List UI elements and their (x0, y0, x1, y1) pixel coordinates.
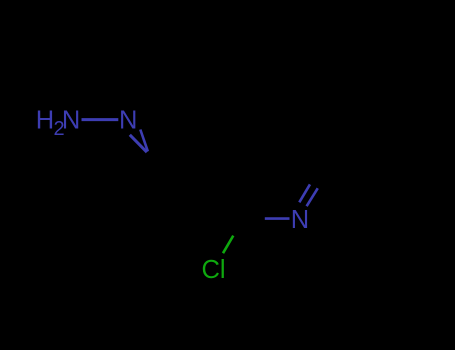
svg-text:N: N (62, 107, 80, 135)
svg-text:Cl: Cl (202, 256, 226, 284)
svg-text:N: N (119, 106, 137, 134)
svg-text:H: H (36, 107, 54, 135)
atom label H2N (hydrazine NH2 nitrogen) (36, 107, 81, 141)
bond N2=C7 carbon halves (black, invisible) (147, 152, 160, 170)
bond C2-Cl: carbon half black (invisible), chlorine half green (233, 219, 244, 236)
bond N1=C6 carbon halves (black, invisible) (310, 174, 316, 184)
bond C4-C5 ring (black, invisible) (244, 121, 300, 124)
bond N-N (H2N to hydrazone N, single bond, blue) (82, 118, 119, 121)
bond N1=C6 ring double bond, blue halves near N (299, 184, 310, 202)
bond C5-C6 ring (black, invisible) (300, 122, 328, 171)
bond C7-C3 (black, invisible) (160, 169, 216, 172)
bond N2=C7 double bond, blue halves (visible V near N) (130, 135, 147, 153)
bond C2-N1 ring single bond: carbon half black, nitrogen half blue (244, 217, 265, 220)
bond C3-C4 ring (black, invisible) (216, 122, 244, 171)
svg-text:N: N (291, 206, 309, 234)
bond C3-C2 ring (black, invisible) (216, 171, 244, 220)
